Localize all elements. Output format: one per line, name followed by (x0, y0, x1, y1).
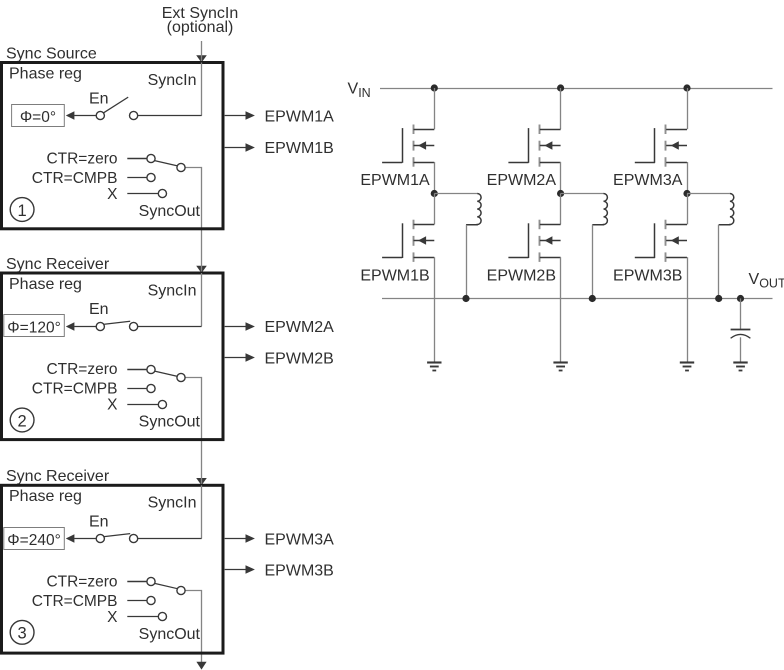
label X (block 1) (107, 186, 118, 203)
svg-text:X: X (107, 397, 118, 414)
svg-text:SyncIn: SyncIn (148, 495, 197, 512)
wire EPWM3A source to switch node (687, 162, 689, 194)
wire EPWM3B output (225, 569, 251, 571)
label EPWM1B (power stage) (360, 268, 429, 285)
junction switch node leg 1 (431, 190, 438, 197)
wire EPWM2B output (225, 357, 251, 359)
label En (block 3) (89, 513, 109, 530)
label EPWM1A (power stage) (360, 172, 430, 189)
arrowhead SyncIn block 3 (196, 478, 207, 485)
svg-text:Φ=0°: Φ=0° (20, 109, 56, 126)
label EPWM3B (sync output) (265, 563, 334, 580)
svg-text:CTR=zero: CTR=zero (46, 574, 117, 591)
wire En switch to SyncIn line (block 2) (138, 326, 202, 328)
label Phase reg (block 3) (9, 488, 82, 505)
wire CTR=CMPB stub (block 1) (127, 177, 147, 179)
svg-text:EPWM1B: EPWM1B (265, 140, 334, 157)
junction VIN leg 1 (431, 84, 438, 91)
svg-text:V: V (749, 271, 760, 288)
svg-text:CTR=zero: CTR=zero (46, 151, 117, 168)
label EPWM3B (power stage) (613, 268, 682, 285)
label CTR=CMPB (block 1) (32, 170, 118, 187)
svg-text:2: 2 (18, 412, 27, 430)
capacitor COUT (731, 330, 751, 339)
arrowhead into phase reg (block 2) (66, 322, 75, 330)
wire L3 to VOUT rail (718, 225, 720, 299)
transistor EPWM2B low-side MOSFET (508, 220, 560, 262)
wire X stub (block 1) (127, 193, 158, 195)
svg-text:CTR=CMPB: CTR=CMPB (32, 381, 118, 398)
wire EPWM1A output (225, 115, 251, 117)
junction L1 on VOUT rail (462, 295, 469, 302)
svg-text:OUT: OUT (759, 276, 784, 290)
label SyncOut (block 3) (139, 626, 201, 643)
wire phase reg to En switch (block 1) (74, 115, 96, 117)
label VIN (348, 81, 371, 101)
label EPWM1A (sync output) (265, 109, 335, 126)
svg-text:X: X (107, 186, 118, 203)
wire switch node to EPWM3B drain (687, 194, 689, 225)
label SyncIn (block 2) (148, 282, 197, 299)
svg-text:Φ=240°: Φ=240° (7, 532, 60, 549)
svg-text:Sync Receiver: Sync Receiver (6, 256, 110, 273)
svg-text:Sync Receiver: Sync Receiver (6, 468, 110, 485)
ground COUT (733, 363, 747, 371)
wire phase reg to En switch (block 2) (74, 326, 96, 328)
label X (block 3) (107, 609, 118, 626)
svg-text:SyncIn: SyncIn (148, 282, 197, 299)
svg-text:EPWM1A: EPWM1A (265, 109, 335, 126)
wire switch node to inductor L3 (687, 193, 730, 195)
wire EPWM1A source to switch node (434, 162, 436, 194)
label Phase reg (block 1) (9, 65, 82, 82)
wire EPWM3A output (225, 538, 251, 540)
svg-text:En: En (89, 301, 109, 318)
arrowhead SyncIn block 2 (196, 266, 207, 273)
wire L2 to VOUT rail (592, 225, 594, 299)
switch En pole contact (block 1) (96, 111, 104, 119)
contact SyncOut common (block 3) (177, 586, 185, 594)
selector arm SyncOut (block 2) (155, 371, 178, 376)
label Phase reg (block 2) (9, 276, 82, 293)
wire EPWM1B output (225, 147, 251, 149)
label EPWM1B (sync output) (265, 140, 334, 157)
switch En pole contact (block 3) (96, 534, 104, 542)
wire COUT to ground (740, 337, 742, 362)
wire SyncIn vertical (block 1) (201, 63, 203, 116)
label CTR=CMPB (block 2) (32, 381, 118, 398)
svg-text:EPWM2B: EPWM2B (265, 350, 334, 367)
svg-text:Φ=120°: Φ=120° (7, 320, 60, 337)
svg-text:EPWM2B: EPWM2B (487, 268, 556, 285)
svg-text:IN: IN (358, 86, 371, 100)
inductor L1 (466, 194, 481, 225)
transistor EPWM2A high-side MOSFET (508, 125, 560, 167)
label SyncOut (block 2) (139, 414, 201, 431)
wire Ext SyncIn down to block 1 (201, 41, 203, 63)
label SyncIn (block 3) (148, 495, 197, 512)
wire EPWM1B source to ground (434, 257, 436, 362)
label CTR=zero (block 3) (46, 574, 117, 591)
junction L3 on VOUT rail (715, 295, 722, 302)
phase register box Φ=240&#176; (block 3) (4, 528, 65, 550)
arrowhead EPWM1A (246, 111, 255, 120)
wire VOUT rail to COUT (740, 299, 742, 330)
svg-text:(optional): (optional) (167, 19, 234, 36)
label Sync Source (block 1) (6, 45, 97, 62)
ground leg 2 (553, 363, 567, 371)
wire EPWM2A output (225, 326, 251, 328)
selector arm SyncOut (block 3) (155, 583, 178, 588)
switch En throw contact (block 3) (130, 534, 138, 542)
label X (block 2) (107, 397, 118, 414)
block 3 box ePWM3 module (2, 485, 224, 653)
wire CTR=CMPB stub (block 3) (127, 600, 147, 602)
inductor L3 (719, 194, 734, 225)
label EPWM2B (sync output) (265, 350, 334, 367)
phase register box Φ=120&#176; (block 2) (4, 315, 65, 337)
label En (block 2) (89, 301, 109, 318)
arrowhead SyncOut bottom (196, 662, 206, 670)
wire switch node to EPWM1B drain (434, 194, 436, 225)
wire SyncIn vertical (block 3) (201, 485, 203, 538)
label SyncOut (block 1) (139, 203, 201, 220)
svg-text:Phase reg: Phase reg (9, 65, 82, 82)
phase register box Φ=0&#176; (block 1) (12, 105, 65, 127)
wire CTR=zero stub (block 1) (127, 158, 147, 160)
inductor L2 (592, 194, 607, 225)
label En (block 1) (89, 91, 109, 108)
numbered bubble 2 (10, 408, 34, 432)
svg-text:CTR=CMPB: CTR=CMPB (32, 170, 118, 187)
svg-text:SyncOut: SyncOut (139, 626, 201, 643)
svg-text:SyncOut: SyncOut (139, 203, 201, 220)
wire CTR=zero stub (block 2) (127, 369, 147, 371)
wire SyncOut block 3 down (185, 591, 202, 663)
label EPWM3A (power stage) (613, 172, 683, 189)
wire EPWM3B source to ground (687, 257, 689, 362)
wire VOUT rail (382, 298, 773, 300)
label EPWM2A (sync output) (265, 319, 335, 336)
svg-text:EPWM3A: EPWM3A (613, 172, 683, 189)
arrowhead into phase reg (block 3) (66, 534, 75, 542)
contact CTR=CMPB (block 1) (147, 173, 155, 181)
wire SyncIn vertical (block 2) (201, 273, 203, 326)
svg-text:X: X (107, 609, 118, 626)
svg-text:SyncIn: SyncIn (148, 72, 197, 89)
svg-text:SyncOut: SyncOut (139, 414, 201, 431)
wire VIN rail (380, 88, 773, 90)
arrowhead Ext SyncIn into block 1 (196, 55, 207, 62)
junction switch node leg 3 (683, 190, 690, 197)
svg-text:CTR=CMPB: CTR=CMPB (32, 593, 118, 610)
transistor EPWM3A high-side MOSFET (635, 125, 687, 167)
contact CTR=CMPB (block 2) (147, 384, 155, 392)
contact X (block 3) (158, 612, 166, 620)
contact X (block 2) (158, 400, 166, 408)
label Ext SyncIn (optional) (162, 5, 238, 36)
switch En throw contact (block 1) (130, 111, 138, 119)
svg-text:EPWM2A: EPWM2A (487, 172, 557, 189)
svg-text:EPWM3B: EPWM3B (265, 563, 334, 580)
block 2 box ePWM2 module (2, 273, 224, 440)
label CTR=CMPB (block 3) (32, 593, 118, 610)
label Sync Receiver (block 3) (6, 468, 110, 485)
svg-text:Sync Source: Sync Source (6, 45, 97, 62)
junction VIN leg 3 (683, 84, 690, 91)
transistor EPWM3B low-side MOSFET (635, 220, 687, 262)
label CTR=zero (block 1) (46, 151, 117, 168)
wire L1 to VOUT rail (466, 225, 468, 299)
label SyncIn (block 1) (148, 72, 197, 89)
switch En arm open (block 1) (104, 97, 129, 113)
label EPWM2A (power stage) (487, 172, 557, 189)
arrowhead into phase reg (block 1) (66, 111, 75, 119)
wire VIN to EPWM2A drain (560, 88, 562, 129)
junction L2 on VOUT rail (589, 295, 596, 302)
svg-text:EPWM1B: EPWM1B (360, 268, 429, 285)
numbered bubble 3 (10, 620, 34, 644)
wire VIN to EPWM1A drain (434, 88, 436, 129)
junction VIN leg 2 (557, 84, 564, 91)
wire X stub (block 3) (127, 616, 158, 618)
svg-text:CTR=zero: CTR=zero (46, 361, 117, 378)
contact CTR=zero (block 3) (147, 577, 155, 585)
wire SyncOut block 1 to block 2 (185, 168, 202, 275)
wire CTR=CMPB stub (block 2) (127, 388, 147, 390)
wire phase reg to En switch (block 3) (74, 538, 96, 540)
junction switch node leg 2 (557, 190, 564, 197)
label Sync Receiver (block 2) (6, 256, 110, 273)
svg-text:1: 1 (18, 202, 27, 220)
wire switch node to inductor L1 (434, 193, 477, 195)
switch En pole contact (block 2) (96, 322, 104, 330)
transistor EPWM1A high-side MOSFET (382, 125, 434, 167)
wire CTR=zero stub (block 3) (127, 581, 147, 583)
arrowhead EPWM2A (246, 322, 255, 331)
contact SyncOut common (block 1) (177, 163, 185, 171)
wire X stub (block 2) (127, 404, 158, 406)
block 1 box ePWM1 module (2, 63, 224, 229)
label CTR=zero (block 2) (46, 361, 117, 378)
ground leg 1 (427, 363, 441, 371)
svg-text:En: En (89, 91, 109, 108)
wire En switch to SyncIn line (block 1) (138, 115, 202, 117)
svg-text:En: En (89, 513, 109, 530)
svg-text:EPWM2A: EPWM2A (265, 319, 335, 336)
wire EPWM2B source to ground (560, 257, 562, 362)
switch En arm (block 3) (104, 534, 130, 537)
switch En arm (block 2) (104, 321, 130, 324)
arrowhead EPWM1B (246, 143, 255, 152)
transistor EPWM1B low-side MOSFET (382, 220, 434, 262)
svg-text:EPWM1A: EPWM1A (360, 172, 430, 189)
contact SyncOut common (block 2) (177, 373, 185, 381)
svg-text:V: V (348, 81, 359, 98)
svg-text:Phase reg: Phase reg (9, 488, 82, 505)
svg-text:EPWM3A: EPWM3A (265, 531, 335, 548)
arrowhead EPWM3A (246, 534, 255, 543)
numbered bubble 1 (10, 198, 34, 222)
label VOUT (749, 271, 784, 291)
contact X (block 1) (158, 189, 166, 197)
wire En switch to SyncIn line (block 3) (138, 538, 202, 540)
svg-text:3: 3 (18, 625, 27, 643)
svg-text:EPWM3B: EPWM3B (613, 268, 682, 285)
contact CTR=CMPB (block 3) (147, 596, 155, 604)
arrowhead EPWM3B (246, 565, 255, 574)
wire VIN to EPWM3A drain (687, 88, 689, 129)
wire EPWM2A source to switch node (560, 162, 562, 194)
contact CTR=zero (block 1) (147, 154, 155, 162)
selector arm SyncOut (block 1) (155, 161, 178, 166)
label EPWM2B (power stage) (487, 268, 556, 285)
svg-text:Phase reg: Phase reg (9, 276, 82, 293)
wire switch node to inductor L2 (561, 193, 604, 195)
ground leg 3 (680, 363, 694, 371)
wire switch node to EPWM2B drain (560, 194, 562, 225)
switch En throw contact (block 2) (130, 322, 138, 330)
contact CTR=zero (block 2) (147, 365, 155, 373)
wire SyncOut block 2 to block 3 (185, 378, 202, 487)
arrowhead EPWM2B (246, 353, 255, 362)
junction COUT on VOUT rail (737, 295, 744, 302)
label EPWM3A (sync output) (265, 531, 335, 548)
